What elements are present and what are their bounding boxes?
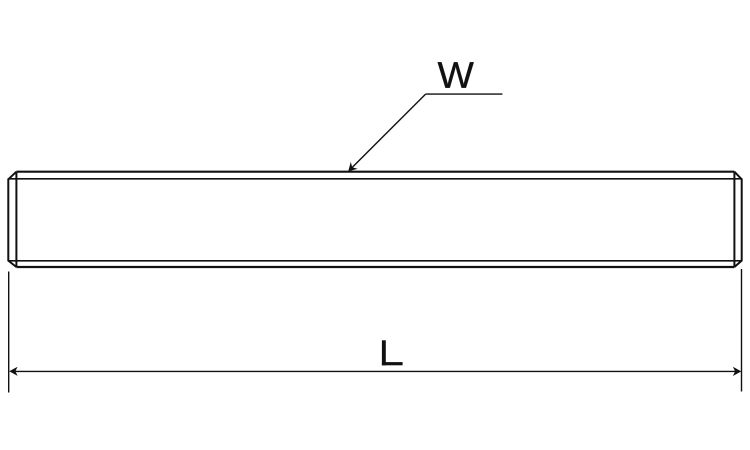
leader horizontal line bbox=[426, 93, 503, 95]
leader arrowhead bbox=[348, 162, 358, 172]
rod outer bottom line bbox=[16, 266, 734, 268]
left extension line bbox=[8, 272, 10, 393]
rod bottom-left chamfer bbox=[8, 261, 16, 267]
dimension left arrowhead bbox=[9, 367, 17, 376]
label L bbox=[382, 340, 403, 365]
thread minor diameter bottom line bbox=[8, 260, 741, 262]
rod bottom-right chamfer bbox=[734, 261, 741, 267]
dimension right arrowhead bbox=[733, 367, 741, 376]
rod left chamfer vertical bbox=[15, 172, 17, 267]
dimension line L bbox=[11, 370, 740, 372]
rod top-right chamfer bbox=[734, 172, 741, 180]
rod right end face bbox=[741, 179, 743, 262]
thread minor diameter top line bbox=[8, 178, 741, 180]
right extension line bbox=[741, 269, 743, 392]
rod left end face bbox=[7, 179, 9, 262]
rod top-left chamfer bbox=[8, 172, 16, 180]
label W bbox=[438, 62, 474, 87]
leader diagonal line bbox=[350, 94, 426, 170]
rod outer top line bbox=[16, 171, 734, 173]
rod right chamfer vertical bbox=[733, 172, 735, 267]
